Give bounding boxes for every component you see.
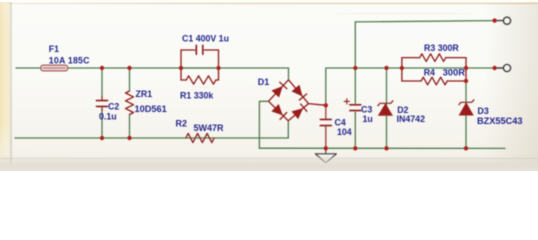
resistor R2 [186, 133, 214, 142]
wire: top output rail [355, 21, 494, 22]
capacitor C3 [350, 104, 361, 106]
node: top rail junctions [100, 66, 104, 70]
svg-text:300R: 300R [443, 67, 466, 78]
svg-text:C4: C4 [335, 118, 346, 128]
svg-text:IN4742: IN4742 [397, 114, 425, 124]
svg-text:1u: 1u [363, 114, 373, 124]
svg-text:C2: C2 [108, 102, 119, 112]
svg-text:F1: F1 [49, 44, 59, 54]
node: bottom-left rail junctions [100, 136, 104, 140]
wire: DC+ horizontal rail [326, 67, 495, 69]
svg-text:ZR1: ZR1 [136, 89, 153, 99]
zener diode D2 [378, 104, 392, 116]
capacitor C2 [101, 96, 103, 111]
wire: D2 branch vertical [386, 68, 388, 148]
node: top output junction [492, 18, 496, 22]
terminal J2 (bottom output) [504, 65, 511, 72]
wire: ground rail [259, 147, 505, 149]
wire: drop to bridge top corner [288, 68, 290, 80]
zener diode D3 [459, 103, 473, 115]
wire: C3 branch vertical [354, 68, 356, 148]
svg-text:10D561: 10D561 [135, 104, 167, 114]
svg-text:104: 104 [337, 127, 352, 137]
wire: AC live top rail [16, 67, 289, 69]
svg-text:D3: D3 [478, 106, 489, 116]
node: ground rail junctions [324, 146, 328, 150]
svg-text:D1: D1 [258, 77, 270, 87]
terminal J1 (top output) [504, 17, 511, 24]
wire: C2 branch vertical [101, 68, 103, 138]
capacitor C1 (block outline + plates) [181, 50, 219, 80]
varistor ZR1 [126, 91, 134, 115]
bridge rectifier D1 [269, 80, 309, 121]
resistor R3 (block outline) [402, 58, 466, 81]
svg-text:0.1u: 0.1u [99, 111, 117, 121]
wire: C1/R1 block pass-through [181, 67, 219, 69]
ground [325, 148, 327, 153]
svg-text:R3 300R: R3 300R [424, 43, 459, 53]
wire: terminal stub bottom [495, 67, 504, 69]
svg-text:5W47R: 5W47R [194, 123, 225, 133]
node: DC+ junction [324, 103, 328, 107]
svg-text:R2: R2 [176, 119, 188, 129]
resistor R1 [181, 79, 219, 81]
resistor R4 [402, 80, 466, 82]
svg-text:R1 330k: R1 330k [180, 91, 213, 101]
svg-text:R4: R4 [424, 68, 435, 78]
wire: bridge left corner drop to ground rail [259, 101, 268, 148]
wire: bottom rail riser to bridge bottom corner [287, 121, 289, 138]
wire: D3 branch vertical [465, 81, 467, 148]
node: DC rail junctions [353, 66, 357, 70]
capacitor C4 [325, 106, 327, 148]
wire: AC neutral bottom rail [15, 137, 288, 139]
svg-text:10A 185C: 10A 185C [49, 56, 90, 66]
fuse F1 [41, 65, 68, 71]
svg-text:C3: C3 [361, 105, 372, 115]
wire: riser to top output [354, 22, 356, 68]
wire: terminal stub top [495, 20, 504, 22]
wire: bridge right corner to DC+ node [309, 104, 326, 106]
wire: DC+ node riser [325, 68, 327, 105]
wire: ZR1 branch vertical [129, 68, 131, 138]
svg-text:C1 400V 1u: C1 400V 1u [182, 34, 229, 44]
svg-text:BZX55C43: BZX55C43 [477, 116, 522, 126]
